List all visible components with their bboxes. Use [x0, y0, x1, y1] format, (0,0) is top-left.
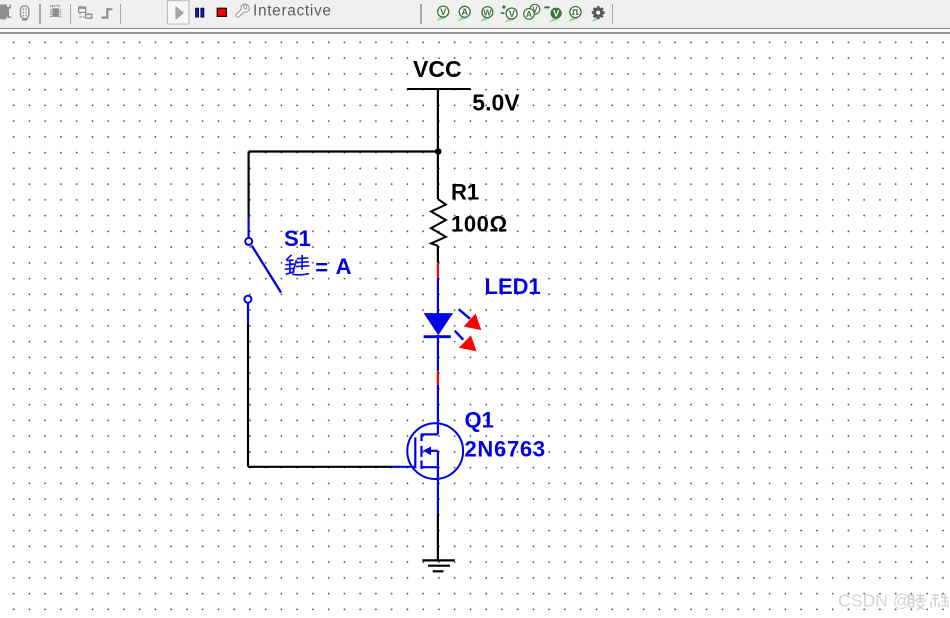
probe icon +/-V	[501, 5, 517, 23]
probe icon clock	[568, 7, 581, 22]
LED LED1 cathode bar	[424, 335, 451, 338]
ground symbol	[422, 560, 454, 571]
svg-text:S1: S1	[284, 226, 311, 251]
wire Q1 source to ground (blue then black)	[437, 467, 439, 560]
play button box	[167, 1, 189, 24]
stop icon	[217, 8, 226, 16]
transistor Q1 body arrow	[423, 447, 438, 468]
wire S1 pin 2 down to bottom rail	[247, 303, 249, 467]
switch S1	[244, 238, 281, 303]
transistor Q1 drain connection	[422, 433, 438, 435]
settings gear icon	[591, 6, 605, 22]
svg-text:CSDN @: CSDN @	[838, 591, 911, 611]
wire bottom rail to Q1 gate	[248, 466, 415, 468]
toolbar icon: connector	[21, 6, 29, 21]
toolbar icon: cut-off component icon	[0, 5, 11, 20]
LED LED1 light arrow 1	[459, 309, 482, 330]
watermark CSDN @曦瑞	[838, 591, 949, 611]
toolbar icons svg	[0, 0, 950, 34]
wire top rail down to S1 pin 1	[248, 152, 250, 238]
svg-text:100Ω: 100Ω	[451, 211, 508, 236]
probe icon AV dual	[524, 4, 540, 19]
node A junction dot	[435, 148, 442, 155]
transistor Q1 gate electrode bar	[414, 437, 416, 468]
LED LED1 anode triangle	[424, 313, 453, 335]
pause icon	[196, 8, 204, 17]
svg-text:R1: R1	[451, 179, 479, 204]
probe icon V	[436, 6, 449, 21]
svg-text:LED1: LED1	[485, 274, 541, 299]
probe icon W	[480, 7, 493, 22]
wire R1 to LED1 (black/red/blue segments)	[437, 246, 439, 314]
svg-text:2N6763: 2N6763	[465, 436, 546, 461]
probe icon -V filled	[544, 7, 561, 22]
transistor Q1 source connection	[422, 466, 438, 468]
toolbar icon: MCU chip	[50, 5, 61, 17]
toolbar icon: step/staircase	[102, 8, 113, 19]
svg-text:Q1: Q1	[465, 407, 494, 432]
svg-text:VCC: VCC	[413, 56, 462, 82]
svg-text:=: =	[315, 255, 328, 280]
wrench icon	[236, 4, 249, 17]
transistor Q1 channel segments	[420, 434, 422, 469]
svg-text:A: A	[336, 254, 352, 279]
probe icon A	[458, 6, 471, 21]
svg-text:5.0V: 5.0V	[472, 89, 520, 115]
wire node A to R1 top	[437, 152, 439, 200]
power symbol VCC	[407, 88, 471, 90]
resistor R1	[431, 199, 446, 246]
wire LED1 cathode to Q1 drain (blue/red/blue segments)	[437, 335, 439, 434]
LED LED1 light arrow 2	[455, 331, 477, 352]
toolbar icon: hierarchy	[79, 7, 92, 18]
wire VCC bar to node A	[437, 89, 439, 152]
key label 键 = A	[285, 255, 309, 275]
wire node A to S1 (top rail)	[249, 150, 439, 152]
transistor Q1 (NMOS) body circle	[407, 423, 463, 479]
